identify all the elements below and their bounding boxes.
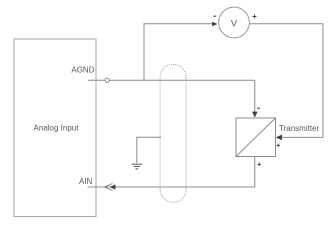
shielded cable capsule xyxy=(160,64,186,202)
node AGND terminal circle xyxy=(105,78,109,82)
svg-text:AIN: AIN xyxy=(79,177,93,186)
svg-text:Transmitter: Transmitter xyxy=(279,124,319,133)
Analog Input box xyxy=(14,39,96,217)
voltmeter V1 circle xyxy=(219,7,250,38)
transmitter diagonal xyxy=(236,118,276,157)
wire transmitter minus drop xyxy=(254,80,256,112)
svg-text:AGND: AGND xyxy=(71,66,94,75)
label plus at voltmeter xyxy=(252,15,256,19)
wire branch up to voltmeter xyxy=(144,24,214,81)
arrowhead into transmitter top xyxy=(252,112,258,118)
wire ground to shield xyxy=(137,137,161,163)
ground symbol xyxy=(132,164,143,169)
label minus at transmitter top xyxy=(257,107,260,109)
label plus at transmitter right xyxy=(276,144,280,148)
wire voltmeter plus to transmitter right xyxy=(249,24,323,138)
wire transmitter plus to AIN xyxy=(88,157,255,188)
wire AGND to transmitter minus xyxy=(109,79,254,81)
arrowhead solid part at AIN xyxy=(110,184,116,189)
svg-text:Analog Input: Analog Input xyxy=(34,124,80,133)
arrowhead into transmitter right xyxy=(276,135,282,141)
transmitter box xyxy=(236,118,276,157)
svg-text:V: V xyxy=(231,19,238,29)
arrowhead into voltmeter minus xyxy=(212,22,217,27)
arrowhead open part at AIN xyxy=(105,183,113,190)
label plus at transmitter bottom xyxy=(257,163,261,167)
wire AGND stub xyxy=(88,79,105,81)
label minus at voltmeter xyxy=(213,15,216,17)
